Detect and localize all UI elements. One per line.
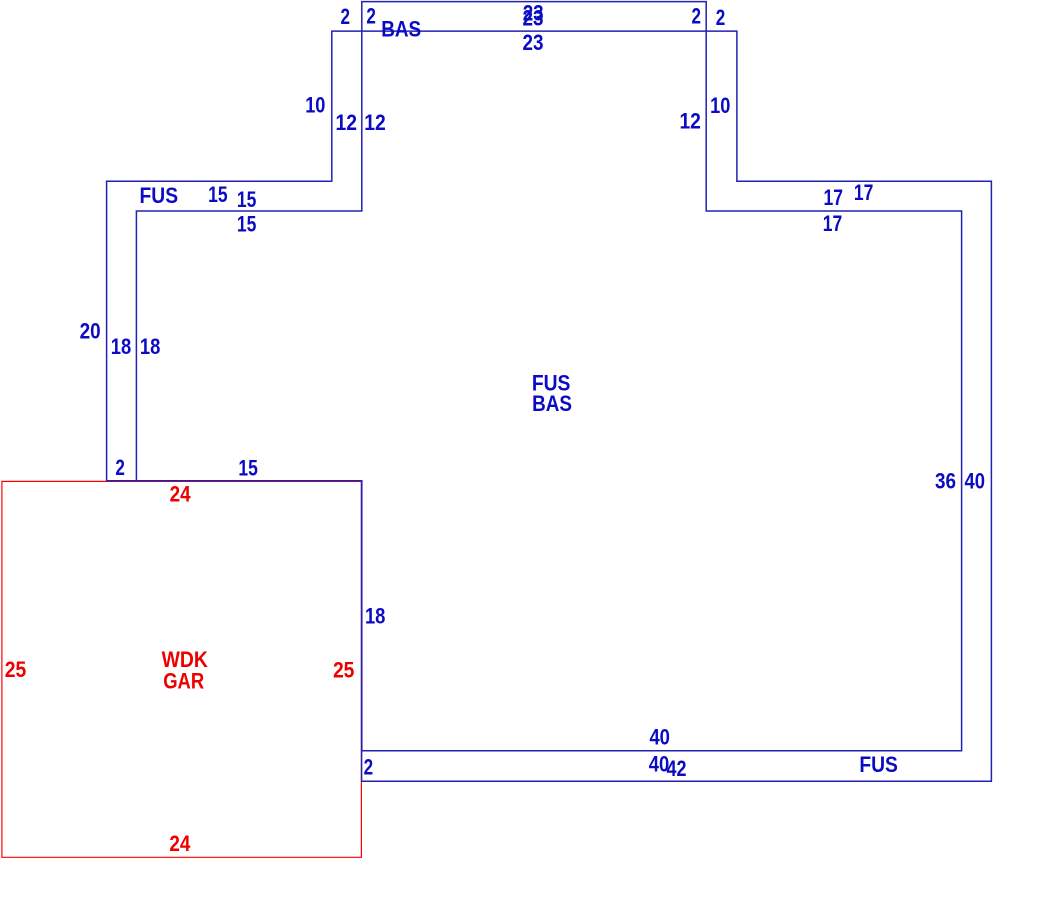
svg-text:15: 15 (238, 456, 258, 481)
svg-text:15: 15 (208, 182, 228, 207)
svg-text:17: 17 (824, 185, 844, 210)
svg-text:20: 20 (80, 318, 101, 343)
svg-text:15: 15 (237, 212, 257, 237)
svg-text:40: 40 (649, 725, 670, 750)
svg-text:2: 2 (691, 3, 701, 28)
svg-text:2: 2 (716, 5, 726, 30)
svg-text:12: 12 (364, 110, 386, 135)
svg-text:15: 15 (237, 187, 257, 212)
svg-text:12: 12 (679, 109, 701, 134)
svg-text:18: 18 (111, 334, 132, 359)
svg-text:10: 10 (305, 93, 325, 118)
svg-text:25: 25 (333, 658, 355, 683)
svg-text:12: 12 (336, 110, 358, 135)
svg-text:18: 18 (365, 604, 386, 629)
svg-text:18: 18 (140, 334, 161, 359)
svg-text:2: 2 (364, 754, 374, 779)
svg-text:2: 2 (341, 4, 351, 29)
svg-text:FUS: FUS (140, 183, 179, 208)
svg-text:42: 42 (667, 756, 687, 781)
svg-text:2: 2 (366, 3, 376, 28)
svg-text:40: 40 (965, 468, 986, 493)
svg-text:23: 23 (523, 6, 544, 31)
svg-text:24: 24 (170, 482, 192, 507)
svg-text:GAR: GAR (163, 668, 204, 693)
svg-text:17: 17 (823, 211, 843, 236)
svg-text:BAS: BAS (532, 391, 572, 416)
svg-text:23: 23 (523, 30, 544, 55)
basement polygon BAS outline (blue) (136, 2, 961, 751)
first-floor polygon FUS outline (blue) (107, 31, 992, 781)
svg-text:BAS: BAS (381, 16, 421, 41)
svg-text:FUS: FUS (859, 752, 898, 777)
svg-text:10: 10 (710, 93, 730, 118)
svg-text:36: 36 (935, 469, 956, 494)
svg-text:25: 25 (5, 657, 27, 682)
svg-text:24: 24 (169, 831, 191, 856)
svg-text:2: 2 (115, 455, 125, 480)
garage/deck polygon WDK GAR (red outline) (2, 481, 362, 857)
svg-text:17: 17 (854, 180, 874, 205)
